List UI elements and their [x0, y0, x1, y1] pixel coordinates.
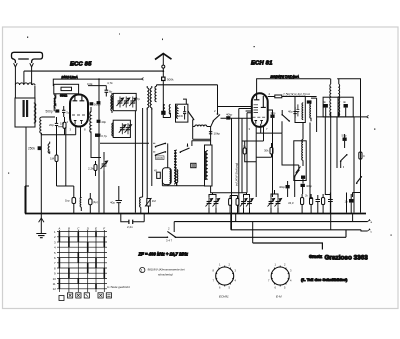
- svg-text:246V; 5,2mA: 246V; 5,2mA: [61, 75, 78, 79]
- wire: x282 drop: [282, 133, 299, 197]
- wire: AM ant drop: [217, 85, 219, 114]
- svg-text:(4μ): (4μ): [93, 200, 98, 204]
- wire bottoms: [326, 108, 346, 117]
- trimmer C t5: [125, 123, 132, 134]
- terminal c tick: [368, 229, 371, 231]
- capacitor 2,2n: [127, 220, 133, 229]
- main ground bus: [25, 213, 366, 215]
- capacitor 40p: [97, 120, 107, 124]
- svg-text:30p: 30p: [271, 111, 276, 115]
- wire: drops below bus right: [231, 214, 353, 244]
- svg-text:600Ω: 600Ω: [60, 93, 68, 97]
- coil at rail left end: [155, 85, 157, 102]
- ground symbol: [36, 214, 46, 238]
- coil to bus (x81): [80, 197, 81, 211]
- svg-text:4n: 4n: [323, 100, 327, 104]
- switch S1a: [188, 111, 195, 121]
- coil P: [329, 79, 332, 117]
- wire: right column drops: [337, 144, 347, 213]
- wire: y142: [337, 141, 361, 143]
- switch S7: [356, 176, 362, 184]
- svg-text:1M: 1M: [50, 157, 55, 161]
- wire: x167.7: [167, 143, 169, 167]
- wire y85.6: [88, 85, 106, 87]
- resistor 0,6k: [63, 117, 66, 135]
- coil form (rounded): [162, 168, 171, 185]
- variable resistor 1M: [145, 198, 156, 214]
- svg-text:F: F: [103, 227, 105, 231]
- cap 4n c: [343, 100, 348, 107]
- FM tuning box: [112, 93, 141, 110]
- wire: y116.9 terminal line: [317, 116, 367, 118]
- resistor x323: [322, 194, 325, 214]
- svg-text:11: 11: [53, 282, 56, 286]
- svg-text:7p: 7p: [66, 111, 70, 115]
- wire: bus drop x120.8 and 2,2n cap: [121, 214, 144, 222]
- wire: y112.7 to tube: [247, 113, 252, 193]
- trimmer C t3: [129, 97, 136, 108]
- resistor pair: [229, 196, 239, 214]
- capacitor 7p: [62, 106, 70, 117]
- IF sec box: [294, 123, 313, 195]
- wire: pin8 drop: [80, 127, 82, 198]
- grid columns: [59, 230, 104, 292]
- capacitor 40kp b: [279, 181, 290, 197]
- svg-text:1M: 1M: [60, 122, 65, 126]
- wire: y157.3: [250, 133, 272, 197]
- trimmer C t2: [123, 97, 130, 108]
- socket ECC85: [268, 263, 292, 299]
- wire: y108.5 to tube: [239, 109, 252, 213]
- socket ECH81: [213, 263, 237, 299]
- svg-text:B: B: [68, 227, 70, 231]
- svg-text:4n: 4n: [343, 100, 347, 104]
- svg-text:40kp: 40kp: [279, 185, 286, 189]
- antenna shield box: [15, 98, 36, 127]
- terminal a tick: [368, 219, 371, 221]
- 14uH coil block: [176, 104, 188, 122]
- svg-text:4n5: 4n5: [179, 114, 184, 118]
- svg-text:4,7k: 4,7k: [107, 81, 113, 85]
- capacitor 40p c: [288, 107, 297, 118]
- wire grid node: [41, 116, 55, 118]
- svg-text:250k: 250k: [28, 147, 35, 151]
- resistor 500k: [161, 77, 166, 82]
- coil x140.8: [140, 197, 143, 214]
- grid row numbers: [53, 230, 57, 291]
- svg-text:A: A: [57, 227, 60, 231]
- wire: box legs to bus: [25, 186, 29, 214]
- wire cathode row: [41, 127, 75, 135]
- svg-text:ECC 85: ECC 85: [70, 62, 92, 68]
- coil: [310, 100, 311, 121]
- FM IF coil pair: [147, 86, 149, 110]
- coupling coil: [34, 103, 36, 123]
- capacitor 500p: [46, 109, 60, 113]
- svg-text:500p: 500p: [46, 109, 53, 113]
- wire: rail drop to balun centre tap: [23, 71, 25, 84]
- wire: x231.5 vertical: [231, 118, 233, 230]
- svg-text:20p: 20p: [49, 123, 54, 127]
- switch S5: [294, 165, 300, 178]
- wire: switch feed: [153, 143, 155, 152]
- svg-text:1kp: 1kp: [65, 199, 70, 203]
- wire: grid line to ECH: [221, 117, 252, 119]
- resistor U box: [191, 163, 196, 167]
- wire: corner to right: [192, 141, 211, 146]
- svg-text:1M: 1M: [152, 199, 157, 203]
- coil L1 under anode box: [54, 94, 56, 108]
- svg-text:10kp: 10kp: [214, 132, 221, 136]
- FM ratio det transformer: [161, 104, 170, 117]
- ECC85 tube: [67, 95, 92, 132]
- resistor 1k (anode): [268, 93, 317, 98]
- wire: below-bus line b (y229.8): [231, 230, 368, 231]
- capacitor 50p: [342, 134, 347, 145]
- wire: x99 long vertical: [98, 79, 100, 212]
- capacitor 6,8p: [105, 86, 113, 97]
- wire: x310 vertical: [310, 123, 313, 199]
- svg-text:40p: 40p: [101, 120, 106, 124]
- resistor x311: [305, 194, 313, 214]
- svg-text:ZF = 460 kHz + 10,7 MHz: ZF = 460 kHz + 10,7 MHz: [138, 252, 189, 257]
- trimmer C t4: [119, 123, 126, 134]
- coil under box: [53, 94, 56, 111]
- wire from box down: [25, 127, 27, 214]
- cap (4uH) x90: [81, 192, 100, 214]
- svg-text:33,0: 33,0: [288, 201, 294, 205]
- trimmer pair a: [206, 193, 220, 214]
- electrolytic 40u: [110, 186, 122, 214]
- FM dipole antenna: [12, 52, 43, 98]
- capacitor 40kp: [226, 113, 233, 120]
- svg-text:960,8/V (Klemmenwerte bei: 960,8/V (Klemmenwerte bei: [148, 268, 185, 272]
- cap 4n b: [323, 100, 328, 107]
- wire: horizontal y143: [100, 142, 149, 144]
- svg-text:1: 1: [141, 269, 143, 273]
- svg-text:40kp: 40kp: [226, 113, 233, 117]
- wire: vertical to bus (cathode): [56, 135, 58, 155]
- svg-text:12: 12: [53, 287, 57, 291]
- svg-text:(1. Teil des Schaltbildes): (1. Teil des Schaltbildes): [301, 277, 348, 282]
- trimmer pair c: [268, 190, 294, 214]
- wire: top FM rail: [24, 70, 163, 72]
- resistor 2,2k: [88, 161, 97, 176]
- coil AM: [112, 123, 113, 136]
- wire corner lower right: [325, 117, 360, 214]
- ECH81 tube: [249, 92, 271, 131]
- AM antenna: [155, 54, 174, 115]
- svg-text:Graetz: Graetz: [309, 254, 322, 259]
- svg-text:1,4(1,7)mA: 1,4(1,7)mA: [295, 92, 310, 96]
- anode coil box with 600R resistor: [54, 84, 79, 97]
- wire: under switch: [193, 120, 214, 140]
- MW coil box: [205, 139, 248, 193]
- wire: links up from 14u box: [183, 99, 186, 104]
- wire: below-bus line d (y243): [253, 243, 323, 250]
- svg-text:0,7μ: 0,7μ: [101, 134, 107, 138]
- svg-text:40μ: 40μ: [110, 201, 115, 205]
- coil L3: [48, 142, 50, 154]
- capacitor 500p b: [90, 102, 101, 106]
- svg-text:8p: 8p: [109, 90, 113, 94]
- svg-text:1n: 1n: [345, 200, 349, 204]
- UKW switch contacts S2: [155, 143, 167, 160]
- svg-text:10: 10: [53, 277, 57, 281]
- wire: L4 down and right: [91, 131, 101, 157]
- svg-text:7p: 7p: [137, 97, 141, 101]
- wire: below-bus line c (y237.3): [148, 230, 346, 238]
- wire: AM rail y84.8: [157, 84, 218, 86]
- coil S: [338, 79, 341, 117]
- wire: x242 vertical: [241, 118, 243, 193]
- svg-text:ECH 81: ECH 81: [251, 61, 273, 67]
- resistor x302: [301, 194, 304, 214]
- svg-text:E-M: E-M: [276, 295, 282, 299]
- push button boxes: [59, 293, 112, 301]
- svg-text:30k: 30k: [264, 149, 269, 153]
- svg-text:in(UKW-Stellung): in(UKW-Stellung): [234, 163, 238, 186]
- balun coil: [15, 83, 35, 85]
- resistor 1M vertical: [50, 155, 58, 186]
- wire: ECH pin drops: [256, 124, 263, 141]
- svg-text:C: C: [363, 154, 365, 158]
- cap x317: [316, 195, 321, 214]
- cap small right of tube: [95, 134, 99, 137]
- terminal arrow: [367, 115, 369, 118]
- switch S6: [337, 142, 348, 168]
- svg-text:500k: 500k: [167, 77, 174, 81]
- capacitor 40p b: [97, 101, 101, 104]
- wire: y185.8: [162, 180, 205, 186]
- svg-text:3 4 7: 3 4 7: [166, 239, 173, 243]
- wire: tube left wires: [218, 107, 252, 112]
- wire: y133.1: [256, 121, 282, 133]
- cap x330: [328, 193, 333, 214]
- wire grid stub: [58, 125, 63, 127]
- wire: pin8 coil connection: [81, 193, 91, 214]
- resistor right: [359, 152, 365, 159]
- resistor 1kp (x73.8): [57, 186, 76, 214]
- coil L osc UKW: [174, 150, 177, 186]
- svg-text:40p: 40p: [288, 110, 293, 114]
- svg-text:40kp: 40kp: [306, 184, 313, 188]
- wire: y141 stub: [242, 140, 264, 142]
- wire x316.6: [311, 98, 317, 132]
- capacitor 20p: [49, 117, 58, 135]
- coil L4 (2nd triode anode): [90, 107, 91, 134]
- resistor 1k b: [243, 141, 250, 162]
- resistor 30k: [264, 143, 273, 157]
- grid thick contact marks: [59, 232, 104, 289]
- grid rows: [57, 232, 107, 289]
- scan specks: [8, 34, 392, 236]
- svg-text:stimulenta): stimulenta): [158, 273, 173, 277]
- svg-text:1,5k(1k): 1,5k(1k): [283, 93, 295, 97]
- coil L7: [177, 170, 178, 186]
- svg-text:Grazioso 3363: Grazioso 3363: [325, 255, 369, 262]
- coil L5: [111, 93, 112, 113]
- trimmer pair b: [240, 193, 253, 214]
- coil L2: [40, 117, 42, 135]
- terminal letters: [371, 220, 373, 234]
- capacitor 10kp: [209, 132, 220, 136]
- coil zigzag (AM input): [193, 125, 211, 127]
- svg-text:220(240)V; 7,0(7,4)mA: 220(240)V; 7,0(7,4)mA: [270, 74, 300, 78]
- band switch S1b: [213, 109, 221, 122]
- svg-text:U-Taste gedrückt: U-Taste gedrückt: [107, 285, 130, 289]
- switch S3: [180, 144, 190, 154]
- AM tuning box: [112, 120, 132, 137]
- switch S4: [281, 110, 290, 122]
- cap 4n a: [307, 100, 311, 103]
- cap 1n x351: [345, 194, 354, 214]
- trimmer C t1: [117, 97, 124, 108]
- trimmer cap mid-left: [101, 160, 108, 171]
- wire twin lead: [34, 86, 36, 99]
- capacitor 30p: [268, 110, 276, 197]
- svg-text:2,2n: 2,2n: [127, 225, 133, 229]
- IF can 10.7MHz block: [295, 96, 317, 132]
- svg-text:2,2k: 2,2k: [88, 167, 94, 171]
- wire: 246V rail: [53, 79, 141, 86]
- grid column letters: [57, 227, 105, 231]
- resistor 45n box: [154, 169, 160, 179]
- wire: 220V rail: [257, 79, 361, 213]
- coil FM osc: [112, 96, 113, 109]
- svg-text:ECH81: ECH81: [219, 295, 229, 299]
- circled note: [140, 267, 185, 276]
- wire: below-bus line a (y221.6): [174, 221, 367, 223]
- switch S8 below bus: [166, 222, 176, 243]
- can cell A: [295, 96, 305, 122]
- wire: long verticals gang: [135, 108, 151, 213]
- wire: x337 x354 verticals: [337, 117, 354, 213]
- IF can 460kHz block: [323, 79, 353, 117]
- svg-text:0,6k: 0,6k: [87, 82, 93, 86]
- capacitor 0,7u: [97, 134, 108, 138]
- resistor 250k: [28, 133, 41, 214]
- wire: pin3 drop to bus: [65, 127, 67, 186]
